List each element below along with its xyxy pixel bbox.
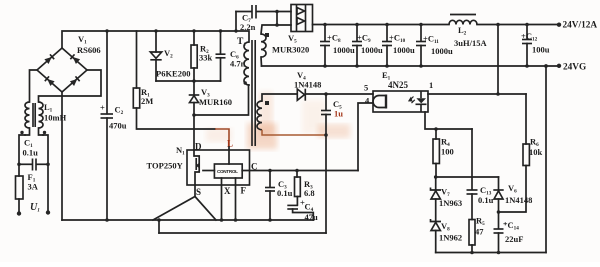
svg-text:3A: 3A xyxy=(28,182,39,192)
svg-text:2M: 2M xyxy=(141,96,153,106)
wire: right winding top to bridge right vertex xyxy=(39,70,102,102)
IC U TOP250Y outer box xyxy=(187,150,250,185)
svg-text:V1: V1 xyxy=(78,34,87,46)
capacitor C6 4.7n xyxy=(220,31,222,54)
capacitor C4 47u xyxy=(296,197,298,206)
svg-text:V2: V2 xyxy=(164,48,173,60)
svg-text:V6: V6 xyxy=(508,183,517,195)
bridge diode top-left xyxy=(44,54,54,64)
node: V6/C14/R6 xyxy=(497,210,501,214)
wire: primary top rail xyxy=(62,31,249,48)
TOP250Y internal MOSFET xyxy=(194,150,199,196)
orange scan smudges xyxy=(206,92,350,149)
svg-text:S: S xyxy=(196,187,201,197)
choke L1 right winding xyxy=(39,102,44,128)
resistor R3 6.8 xyxy=(295,169,299,173)
svg-text:T1: T1 xyxy=(237,37,246,48)
svg-text:470u: 470u xyxy=(109,121,127,131)
svg-text:0.1u: 0.1u xyxy=(23,148,39,158)
resistor R6 10k xyxy=(525,94,527,144)
svg-text:⁺C14: ⁺C14 xyxy=(503,220,519,232)
svg-text:+C12: +C12 xyxy=(521,31,538,43)
wire: clamp bottom line xyxy=(156,80,221,82)
svg-text:CONTROL: CONTROL xyxy=(217,169,238,174)
svg-text:1000u: 1000u xyxy=(361,45,383,55)
choke L1 10mH left winding xyxy=(25,102,29,128)
capacitor C10 1000u xyxy=(386,25,388,42)
capacitor C5 1u (aux) xyxy=(324,92,328,96)
choke polarity dots xyxy=(20,131,23,134)
wire: source slant legs xyxy=(153,197,216,221)
svg-text:MUR160: MUR160 xyxy=(199,97,232,107)
svg-text:1000u: 1000u xyxy=(393,45,415,55)
svg-text:+C11: +C11 xyxy=(423,34,439,46)
svg-text:0.1u: 0.1u xyxy=(478,195,494,205)
T1 aux winding xyxy=(257,101,262,130)
wire: opto pin2 down to feedback xyxy=(425,112,472,129)
wire: C pin line to opto emitter xyxy=(242,170,358,172)
svg-text:+C8: +C8 xyxy=(327,33,341,45)
wire: 24VG to feedback ground xyxy=(545,66,547,253)
svg-text:1000u: 1000u xyxy=(431,46,453,56)
diode V6 1N4148 xyxy=(498,177,500,190)
bridge diode bottom-right xyxy=(70,76,80,86)
svg-text:+: + xyxy=(100,103,105,113)
svg-text:4N25: 4N25 xyxy=(388,80,408,90)
wire: 24V rail after L2 to terminal xyxy=(477,24,558,26)
svg-text:1N4148: 1N4148 xyxy=(294,80,321,90)
bridge rectifier V1 RS606 diamond xyxy=(37,48,87,92)
svg-text:100u: 100u xyxy=(532,45,550,55)
svg-text:0.1u: 0.1u xyxy=(277,188,293,198)
wire: X pin down xyxy=(221,178,223,220)
terminal 24VG xyxy=(557,64,561,68)
capacitor C7 2.2n xyxy=(236,11,251,13)
wire: 24V sense riser xyxy=(497,25,499,95)
wire: F pin down xyxy=(235,178,237,220)
diode V4 1N4148 xyxy=(297,89,304,100)
wire: feedback node line xyxy=(436,176,499,178)
capacitor C3 0.1u xyxy=(268,169,272,173)
CONTROL block xyxy=(214,164,242,178)
svg-text:V5: V5 xyxy=(288,33,297,45)
wire: AC input right leg with terminal xyxy=(43,135,48,212)
svg-text:1N962: 1N962 xyxy=(439,233,462,243)
T1 secondary polarity dot xyxy=(265,33,269,37)
svg-text:C2: C2 xyxy=(115,105,124,117)
svg-text:TOP250Y: TOP250Y xyxy=(147,160,183,170)
svg-text:10mH: 10mH xyxy=(44,113,67,123)
svg-text:33k: 33k xyxy=(199,53,213,63)
capacitor C2 470u bulk xyxy=(106,31,108,114)
wire: left leg fuse to C1 node xyxy=(19,135,25,176)
resistor R2 33k xyxy=(193,31,195,45)
svg-text:D: D xyxy=(195,142,202,152)
svg-text:P6KE200: P6KE200 xyxy=(156,69,190,79)
svg-text:3uH/15A: 3uH/15A xyxy=(454,38,487,48)
svg-text:RS606: RS606 xyxy=(77,45,101,55)
capacitor C1 0.1u (X-cap) xyxy=(19,163,32,165)
svg-text:X: X xyxy=(224,186,231,196)
rectifier V5 MUR3020 dual diode xyxy=(291,5,313,32)
svg-text:1000u: 1000u xyxy=(333,45,355,55)
node dots on top rail xyxy=(105,29,108,32)
wire: 24VG return rail xyxy=(262,65,560,67)
resistor R5 47 xyxy=(469,220,475,246)
opto LED xyxy=(416,98,426,103)
node: zener top xyxy=(434,175,438,179)
svg-text:R5: R5 xyxy=(476,216,485,228)
wire: 24V output rail xyxy=(313,24,450,26)
zener V7 1N963 xyxy=(435,177,437,190)
svg-text:10k: 10k xyxy=(529,147,543,157)
wire: aux bottom return (orange tinted) xyxy=(262,130,326,135)
svg-text:1: 1 xyxy=(429,80,433,90)
svg-text:MUR3020: MUR3020 xyxy=(272,45,309,55)
wire: left winding top to bridge left vertex xyxy=(30,70,38,102)
svg-text:1N963: 1N963 xyxy=(439,198,462,208)
wire: line-sense wire to L pin (orange tinted) xyxy=(215,129,229,147)
svg-text:5: 5 xyxy=(364,83,368,93)
wire: aux top to V4 line xyxy=(262,94,296,101)
capacitor C14 22uF xyxy=(498,212,500,229)
choke core xyxy=(32,103,34,127)
TOP250Y internal gate link xyxy=(203,170,214,172)
capacitor C8 1000u xyxy=(324,25,326,42)
svg-text:1u: 1u xyxy=(334,109,343,119)
wire: C13 branch drop xyxy=(471,129,473,190)
svg-text:24VG: 24VG xyxy=(563,63,586,73)
wire: opto pin4 to C line xyxy=(358,103,373,171)
diode V3 MUR160 xyxy=(193,81,195,95)
node: C1 left junction xyxy=(17,163,21,167)
svg-text:22uF: 22uF xyxy=(505,234,523,244)
svg-text:24V/12A: 24V/12A xyxy=(563,21,598,31)
svg-text:1N4148: 1N4148 xyxy=(505,195,532,205)
TOP250Y internal L wire xyxy=(228,147,230,164)
fuse F1 3A xyxy=(16,176,24,199)
capacitor C12 100u xyxy=(526,25,528,40)
capacitor C13 0.1u xyxy=(467,189,478,191)
svg-text:+C9: +C9 xyxy=(357,33,371,45)
T1 primary polarity dot xyxy=(244,81,247,84)
resistor R1 2M xyxy=(136,31,138,88)
svg-text:100: 100 xyxy=(441,147,454,157)
svg-text:U1: U1 xyxy=(30,202,40,214)
svg-text:47: 47 xyxy=(475,227,484,237)
node: drain junction xyxy=(192,113,196,117)
riser: C7 Y-cap line from top rail xyxy=(235,12,237,32)
T1 secondary winding xyxy=(261,25,291,34)
svg-text:V7: V7 xyxy=(441,187,450,199)
wire: drain down to D pin xyxy=(193,115,195,150)
svg-text:V8: V8 xyxy=(441,221,450,233)
T1 aux polarity dot xyxy=(265,101,269,105)
opto phototransistor xyxy=(385,95,387,109)
wire: feedback ground rail xyxy=(436,252,546,254)
wire: AC input left leg with terminal xyxy=(18,199,20,213)
svg-text:N1: N1 xyxy=(176,145,185,157)
svg-text:F: F xyxy=(241,186,247,196)
svg-text:4: 4 xyxy=(365,96,370,106)
wire: drain line to primary bottom xyxy=(194,85,249,115)
capacitor C9 1000u xyxy=(356,25,358,42)
wire: secondary bottom to 24VG rail xyxy=(260,57,263,66)
wire: opto pin1 line xyxy=(428,93,526,95)
wire: drop to lower return rail xyxy=(158,220,160,233)
bridge diode top-right xyxy=(70,54,80,64)
svg-text:2.2n: 2.2n xyxy=(240,22,256,32)
svg-text:L: L xyxy=(227,139,233,149)
svg-text:47u: 47u xyxy=(305,212,319,222)
wire: lower return rail to aux return xyxy=(159,232,326,234)
wire: secondary top riser xyxy=(276,12,278,26)
bridge diode bottom-left xyxy=(45,76,55,86)
inductor L2 3uH/15A xyxy=(449,20,477,24)
T1 primary winding xyxy=(244,42,249,85)
terminal 24V/12A xyxy=(557,23,561,27)
TVS V2 P6KE200 xyxy=(155,31,157,52)
optocoupler E1 4N25 box xyxy=(373,91,428,112)
svg-text:6.8: 6.8 xyxy=(304,188,315,198)
wire: bridge bottom vertex down to ground rail xyxy=(61,92,63,220)
wire: primary ground rail xyxy=(62,219,314,221)
node: Y-cap junction xyxy=(275,10,279,14)
resistor R4 100 xyxy=(435,129,437,139)
transformer T1 core xyxy=(251,40,253,146)
svg-text:L2: L2 xyxy=(458,25,467,37)
zener V8 1N962 xyxy=(431,219,442,222)
svg-text:+C10: +C10 xyxy=(389,33,406,45)
capacitor C11 1000u xyxy=(420,25,422,42)
